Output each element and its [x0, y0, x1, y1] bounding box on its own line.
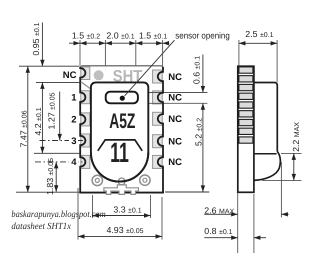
pad pin4 left — [81, 155, 90, 168]
pad NC3 right — [153, 112, 163, 125]
dim 3.3: line — [93, 215, 151, 217]
dim 1.27: line — [59, 92, 61, 141]
pad pin2 left — [81, 113, 90, 126]
side cap outline — [254, 83, 277, 152]
dim 2.6: line + arrows — [204, 213, 237, 215]
pad NC5 right — [153, 155, 163, 168]
svg-text:NC: NC — [63, 70, 77, 81]
dim 0.95: line — [41, 23, 43, 67]
dim 4.2: line — [41, 82, 43, 153]
svg-text:1: 1 — [71, 93, 77, 104]
dim 2.6: ext lines — [237, 193, 239, 217]
svg-text:NC: NC — [168, 137, 182, 148]
dim 0.8: line + arrows — [204, 237, 237, 239]
dim 4.93: ext lines — [77, 188, 79, 240]
svg-text:NC: NC — [168, 114, 182, 125]
dim 2.2: line — [293, 153, 295, 180]
ext line cap top — [36, 81, 80, 83]
ext line cap bottom — [34, 152, 80, 154]
ext line top edge — [19, 65, 80, 67]
dim 7.47: line — [27, 66, 29, 192]
fiducial circle top-left — [94, 70, 104, 80]
ext line package right — [162, 40, 164, 67]
top dim line — [69, 42, 169, 44]
package bottom edge — [79, 192, 164, 194]
svg-text:A5Z: A5Z — [109, 110, 135, 133]
via ring bottom-right — [140, 175, 150, 185]
pad NC left — [81, 67, 90, 80]
side dome bulge — [254, 152, 280, 181]
sensor opening dot — [120, 96, 125, 101]
sensor opening rect — [106, 92, 138, 104]
dome arc re-stroke — [91, 152, 148, 181]
svg-text:NC: NC — [168, 157, 182, 168]
center small circle — [118, 178, 125, 185]
side body — [238, 66, 254, 192]
pad NC1 right — [153, 70, 163, 83]
svg-text:datasheet SHT1x: datasheet SHT1x — [11, 222, 71, 232]
sensor cap outline with dome — [91, 82, 148, 181]
chamfer trapezoid over dome — [98, 140, 142, 151]
package right edge with castellations — [158, 67, 163, 193]
dim 2.5: line — [239, 42, 277, 44]
castellation stack — [239, 67, 253, 143]
svg-text:3: 3 — [71, 136, 76, 147]
dim 1.83: line — [55, 162, 57, 192]
pad pin3 left — [81, 134, 90, 147]
ext line opening right — [135, 40, 137, 66]
cap chamfer corner mark — [81, 82, 93, 91]
dim 2.2: ext lines — [281, 152, 302, 154]
dim 3.3: ext lines — [92, 195, 94, 218]
package body fill — [79, 65, 163, 194]
dim 0.6: line — [202, 55, 204, 93]
backside bracket shape — [104, 185, 138, 195]
leader line to sensor opening label — [125, 40, 175, 96]
ext line package left — [79, 40, 81, 66]
ext line bottom edge right — [165, 191, 209, 193]
label pin3 — [69, 135, 78, 146]
svg-text:2: 2 — [71, 115, 76, 126]
dim 4.93: line — [78, 235, 162, 237]
dim 2.5: ext lines — [238, 40, 240, 66]
sensor-opening height extension lines (0.6) — [139, 92, 208, 94]
svg-text:NC: NC — [168, 93, 182, 104]
package left edge with castellations — [80, 67, 85, 193]
svg-text:4: 4 — [71, 157, 77, 168]
pad pin1 left — [81, 91, 90, 104]
pad NC4 right — [153, 135, 163, 148]
side cap bottom edge — [254, 153, 277, 155]
pad NC2 right — [153, 91, 163, 104]
svg-text:11: 11 — [110, 137, 129, 168]
dash-dot centerline pin4 — [35, 161, 84, 163]
package top edge (gray) — [80, 66, 163, 69]
svg-text:NC: NC — [168, 72, 182, 83]
dim 5.2: line — [202, 103, 204, 192]
svg-text:baskarapunya.blogspot.com: baskarapunya.blogspot.com — [11, 210, 105, 220]
svg-text:sensor opening: sensor opening — [175, 31, 230, 41]
dim 0.8: ext lines — [237, 218, 239, 254]
ext line bottom edge — [16, 191, 79, 193]
dash-dot centerline pin3 — [40, 140, 85, 142]
label pin4 — [69, 157, 78, 168]
ext line opening left — [104, 40, 106, 66]
via ring bottom-left — [92, 175, 102, 185]
